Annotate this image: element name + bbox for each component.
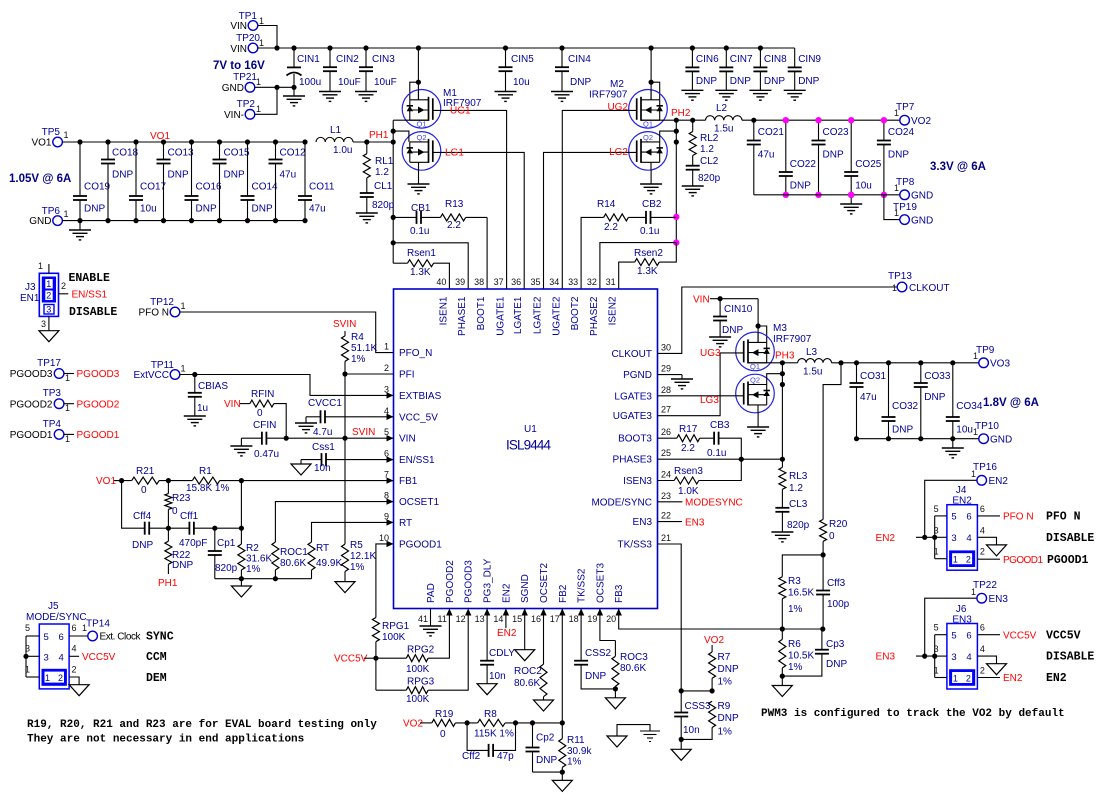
svg-text:PGOOD3: PGOOD3: [464, 560, 475, 603]
svg-text:TP10: TP10: [975, 421, 999, 432]
svg-text:3: 3: [934, 644, 939, 654]
svg-text:6: 6: [966, 512, 971, 523]
resistor RFIN 0: [224, 389, 286, 438]
svg-text:BOOT3: BOOT3: [618, 434, 652, 445]
svg-text:EN3: EN3: [876, 652, 896, 663]
svg-text:CIN7: CIN7: [730, 54, 753, 65]
svg-text:TK/SS3: TK/SS3: [618, 540, 653, 551]
svg-text:2.2: 2.2: [604, 222, 618, 233]
svg-text:36: 36: [511, 277, 521, 287]
svg-text:6: 6: [59, 632, 64, 643]
net UG3 wire: [658, 353, 744, 416]
svg-text:DISABLE: DISABLE: [69, 306, 117, 319]
svg-text:0: 0: [141, 485, 147, 496]
wire CLKOUT pin30 to TP13: [658, 287, 898, 353]
wire PHASE3 pin25: [658, 458, 783, 460]
wire EN2 to J4: [916, 536, 935, 538]
wire R20 to R3: [782, 555, 823, 577]
svg-text:4: 4: [384, 406, 389, 416]
svg-text:R9: R9: [718, 701, 731, 712]
test point TP8 (GND): [894, 177, 933, 202]
wire L2 to VO2 rail: [742, 119, 900, 121]
svg-text:10u: 10u: [513, 77, 530, 88]
ground triangle below CSS3: [680, 739, 682, 749]
svg-text:0: 0: [829, 531, 835, 542]
svg-text:BOOT2: BOOT2: [570, 296, 581, 330]
resistor RPG1 100K: [372, 618, 409, 659]
svg-text:PWM3 is configured to track th: PWM3 is configured to track the VO2 by d…: [761, 708, 1065, 720]
svg-text:OCSET1: OCSET1: [399, 497, 439, 508]
svg-text:1: 1: [971, 469, 976, 479]
wire VIN pin5: [286, 437, 393, 439]
svg-text:10u: 10u: [855, 181, 872, 192]
wire VO2 bottom rail: [754, 194, 900, 196]
svg-text:PGOOD1: PGOOD1: [399, 539, 442, 550]
svg-text:2: 2: [966, 555, 971, 565]
svg-text:Cff2: Cff2: [462, 751, 481, 762]
resistor Rsen3 1.0K: [658, 459, 742, 497]
svg-text:Cp2: Cp2: [536, 733, 555, 744]
svg-text:100p: 100p: [827, 599, 850, 610]
svg-text:CB3: CB3: [710, 420, 730, 431]
ground below VO2 bank: [850, 195, 852, 204]
svg-text:Cff3: Cff3: [827, 578, 846, 589]
svg-text:RPG3: RPG3: [407, 677, 435, 688]
resistor R6 10.5K 1%: [779, 629, 815, 679]
wire VO3 to R20 branch: [823, 363, 841, 520]
ground below VO1 bank: [79, 221, 81, 230]
wire TP2 up to GND node: [255, 87, 277, 114]
svg-text:UG1: UG1: [450, 106, 471, 117]
svg-text:M2: M2: [610, 79, 624, 90]
svg-text:DNP: DNP: [585, 671, 606, 682]
svg-text:1.8V @ 6A: 1.8V @ 6A: [983, 397, 1039, 409]
resistor R4 51.1K 1%: [342, 331, 378, 374]
svg-text:1.3K: 1.3K: [637, 266, 658, 277]
svg-text:VIN: VIN: [693, 295, 710, 306]
wire TP20 to VIN rail: [258, 47, 277, 49]
wire VO3 bottom rail: [857, 438, 979, 440]
wire PH1 vertical node: [392, 120, 394, 263]
svg-text:6: 6: [384, 449, 389, 459]
svg-text:VO2: VO2: [704, 635, 724, 646]
svg-text:1.2: 1.2: [700, 144, 714, 155]
svg-text:DNP: DNP: [536, 755, 557, 766]
svg-text:51.1K: 51.1K: [351, 343, 377, 354]
svg-text:2: 2: [966, 674, 971, 684]
svg-text:VCC5V: VCC5V: [1003, 630, 1037, 641]
svg-text:VO1: VO1: [96, 476, 116, 487]
svg-text:PFO N: PFO N: [138, 308, 169, 319]
svg-text:31.6K: 31.6K: [246, 554, 272, 565]
svg-text:33: 33: [568, 277, 578, 287]
svg-text:CO17: CO17: [140, 182, 167, 193]
resistor R22 DNP: [165, 528, 194, 574]
svg-text:CO18: CO18: [112, 148, 139, 159]
svg-text:LGATE3: LGATE3: [614, 391, 652, 402]
svg-text:DISABLE: DISABLE: [1046, 651, 1094, 664]
svg-text:FB1: FB1: [399, 476, 418, 487]
svg-text:47u: 47u: [758, 150, 775, 161]
svg-text:VCC5V: VCC5V: [82, 652, 116, 663]
svg-text:EN2: EN2: [1003, 673, 1023, 684]
svg-text:Cff4: Cff4: [133, 511, 152, 522]
svg-text:PHASE1: PHASE1: [457, 296, 468, 336]
svg-text:CO13: CO13: [168, 148, 195, 159]
svg-text:100K: 100K: [406, 664, 430, 675]
svg-text:5: 5: [934, 623, 939, 633]
svg-text:12: 12: [456, 614, 466, 624]
svg-text:10.5K: 10.5K: [788, 651, 814, 662]
svg-text:0.1u: 0.1u: [640, 226, 659, 237]
svg-text:2.2: 2.2: [447, 220, 461, 231]
svg-text:TK/SS2: TK/SS2: [577, 568, 588, 603]
svg-text:EN2: EN2: [989, 476, 1009, 487]
capacitor Cff3 100p: [816, 555, 850, 629]
svg-text:Q2: Q2: [417, 133, 427, 142]
capacitor CO34 10u: [946, 360, 983, 441]
wire J6 pin6 VCC5V: [977, 634, 1000, 636]
svg-text:ISEN3: ISEN3: [623, 476, 652, 487]
svg-text:PGOOD2: PGOOD2: [77, 399, 120, 410]
test point TP20 (VIN): [230, 33, 264, 55]
capacitor CIN1 100u (polarized): [283, 45, 321, 106]
svg-text:Css1: Css1: [312, 442, 335, 453]
svg-text:2: 2: [980, 666, 985, 676]
svg-text:PFO_N: PFO_N: [399, 348, 432, 359]
capacitor CIN2 10uF: [319, 45, 361, 101]
capacitor CO22 DNP: [779, 117, 817, 198]
capacitor CL1 820p: [356, 181, 395, 223]
pin 23 MODE/SYNC: [591, 491, 671, 509]
net LG3 wire (pin28 LGATE3): [658, 395, 744, 397]
svg-text:UGATE3: UGATE3: [613, 411, 653, 422]
svg-text:R3: R3: [788, 576, 801, 587]
svg-text:47u: 47u: [309, 204, 326, 215]
pin 2 PFI: [384, 363, 415, 381]
resistor R20 0: [820, 519, 848, 558]
svg-text:RPG1: RPG1: [382, 621, 410, 632]
svg-text:820p: 820p: [372, 200, 395, 211]
svg-text:TP20: TP20: [236, 33, 260, 44]
svg-text:L3: L3: [806, 347, 818, 358]
wire J6 pin2 EN2: [977, 677, 1000, 679]
resistor ROC1 80.6K: [272, 502, 394, 579]
svg-text:BOOT1: BOOT1: [476, 296, 487, 330]
svg-text:1: 1: [934, 666, 939, 676]
svg-text:1%: 1%: [350, 562, 365, 573]
svg-text:1: 1: [65, 434, 70, 444]
test point TP12 (PFO N): [138, 297, 185, 319]
svg-text:EXTBIAS: EXTBIAS: [399, 391, 442, 402]
svg-text:CIN4: CIN4: [568, 54, 591, 65]
svg-text:CO15: CO15: [224, 148, 251, 159]
svg-text:PGOOD1: PGOOD1: [1003, 555, 1043, 566]
svg-text:RL1: RL1: [375, 156, 394, 167]
svg-text:They are not necessary in end: They are not necessary in end applicatio…: [27, 734, 304, 746]
svg-text:13: 13: [475, 614, 485, 624]
svg-text:3: 3: [46, 304, 51, 314]
wire VIN to M1 drain: [417, 48, 419, 100]
svg-text:38: 38: [474, 277, 484, 287]
test point TP10 (GND): [973, 421, 1012, 446]
svg-text:R2: R2: [246, 543, 259, 554]
capacitor Cp2 DNP: [526, 723, 558, 772]
svg-text:10uF: 10uF: [374, 77, 397, 88]
capacitor CO13 DNP: [157, 139, 195, 223]
wire M1 Q2 drain entry: [393, 131, 409, 142]
connector J4 EN2: [932, 485, 985, 570]
capacitor CO11 47u: [298, 139, 335, 223]
pin 40 ISEN1: [436, 277, 449, 325]
svg-text:11: 11: [438, 614, 447, 624]
svg-text:1: 1: [973, 351, 978, 361]
svg-text:MODE/SYNC: MODE/SYNC: [26, 612, 87, 623]
svg-text:J5: J5: [48, 601, 59, 612]
capacitor CL2 820p: [682, 156, 721, 196]
resistor R17 2.2: [658, 424, 715, 454]
svg-text:PH2: PH2: [671, 108, 691, 119]
resistor R8 115K 1%: [465, 709, 565, 740]
svg-text:J4: J4: [956, 485, 967, 496]
pin 3 EXTBIAS: [384, 384, 442, 402]
svg-text:R13: R13: [445, 199, 464, 210]
capacitor CO12 47u: [269, 139, 307, 223]
svg-text:1: 1: [384, 342, 389, 352]
pin 28 LGATE3: [614, 385, 671, 403]
svg-text:TP16: TP16: [973, 462, 997, 473]
wire TK/SS3 down to CSS3: [658, 544, 682, 691]
svg-text:CO14: CO14: [252, 182, 279, 193]
svg-text:VO1: VO1: [150, 131, 170, 142]
inductor L3 1.5u: [798, 347, 832, 378]
svg-text:1: 1: [256, 104, 261, 114]
test point TP22 (EN3): [971, 580, 1008, 605]
capacitor CL3 820p: [771, 499, 809, 542]
capacitor CIN6 DNP: [681, 45, 719, 100]
wire R21 to R1: [159, 480, 192, 482]
svg-text:29: 29: [661, 364, 671, 374]
svg-text:CO24: CO24: [888, 127, 915, 138]
pin 30 CLKOUT: [611, 342, 671, 360]
ground triangle below R2: [240, 579, 242, 586]
svg-text:1: 1: [971, 587, 976, 597]
svg-text:22: 22: [661, 511, 671, 521]
svg-text:10n: 10n: [683, 725, 700, 736]
wire M2 Q2 drain entry: [660, 131, 677, 142]
svg-text:ExtVCC: ExtVCC: [133, 370, 169, 381]
wire TP21 to CIN1 bottom: [255, 86, 294, 88]
resistor RT 49.9K: [308, 522, 394, 578]
svg-text:1: 1: [894, 108, 899, 118]
svg-text:DNP: DNP: [722, 325, 743, 336]
svg-text:EN2: EN2: [952, 496, 972, 507]
wire VCC5V node: [364, 657, 376, 659]
svg-text:3: 3: [951, 533, 956, 544]
svg-text:21: 21: [661, 533, 671, 543]
svg-text:0: 0: [172, 506, 178, 517]
svg-text:ROC3: ROC3: [620, 652, 648, 663]
svg-text:CO12: CO12: [280, 148, 307, 159]
svg-text:5: 5: [44, 632, 49, 643]
svg-text:39: 39: [455, 277, 465, 287]
svg-text:DNP: DNP: [252, 204, 273, 215]
svg-text:19: 19: [587, 614, 597, 624]
net label EN2 (pin14): [505, 609, 507, 629]
svg-text:CB2: CB2: [642, 199, 662, 210]
svg-text:CO31: CO31: [860, 371, 887, 382]
svg-text:VIN-: VIN-: [224, 110, 244, 121]
svg-text:LG1: LG1: [445, 148, 464, 159]
svg-text:PFO N: PFO N: [1003, 512, 1034, 523]
svg-text:0.47u: 0.47u: [254, 449, 279, 460]
wire FB3 pin20: [619, 609, 823, 630]
pin 12 PGOOD3: [456, 560, 475, 624]
capacitor CO18 DNP: [101, 139, 139, 223]
svg-text:TP2: TP2: [237, 99, 256, 110]
wire J4 pin4 to ground: [977, 537, 996, 545]
svg-text:PHASE3: PHASE3: [613, 455, 653, 466]
svg-text:J6: J6: [956, 604, 967, 615]
svg-text:LG3: LG3: [700, 395, 719, 406]
svg-text:CIN6: CIN6: [696, 54, 719, 65]
pin 38 BOOT1: [474, 277, 487, 330]
svg-text:CIN8: CIN8: [764, 54, 787, 65]
resistor R11 30.9k 1%: [559, 723, 593, 772]
svg-text:25: 25: [661, 448, 671, 458]
capacitor CO15 DNP: [213, 139, 251, 223]
svg-text:CIN3: CIN3: [372, 54, 395, 65]
pin 34 UGATE2: [549, 277, 562, 336]
svg-text:UGATE1: UGATE1: [496, 296, 507, 336]
svg-text:VO1: VO1: [31, 138, 51, 149]
svg-text:4.7u: 4.7u: [313, 427, 332, 438]
svg-text:DNP: DNP: [892, 425, 913, 436]
svg-text:CO21: CO21: [758, 127, 785, 138]
svg-text:M3: M3: [773, 323, 787, 334]
pin 31 ISEN2: [606, 277, 619, 325]
pin 7 FB1: [384, 470, 418, 488]
pin 14 EN2: [493, 583, 512, 624]
svg-text:CL3: CL3: [789, 499, 808, 510]
inductor L2 1.5u: [706, 103, 743, 135]
svg-text:5: 5: [934, 504, 939, 514]
pin 29 PGND: [623, 364, 671, 382]
svg-text:ISEN2: ISEN2: [608, 296, 619, 325]
capacitor CO24 DNP: [877, 117, 915, 198]
svg-text:DNP: DNP: [112, 170, 133, 181]
svg-text:80.6K: 80.6K: [514, 678, 540, 689]
svg-text:1%: 1%: [788, 604, 803, 615]
svg-text:FB3: FB3: [614, 584, 625, 603]
net label MODESYNC: [658, 501, 683, 503]
svg-text:DNP: DNP: [764, 76, 785, 87]
capacitor CIN8 DNP: [749, 45, 787, 100]
svg-text:VCC_5V: VCC_5V: [399, 412, 438, 423]
capacitor CIN9 DNP: [784, 48, 822, 100]
wire CSS3 to R7/R9 node: [681, 690, 712, 692]
pin 22 EN3: [633, 511, 671, 529]
svg-text:16: 16: [531, 614, 541, 624]
svg-text:6: 6: [966, 631, 971, 642]
svg-text:GND: GND: [911, 216, 933, 227]
svg-text:4: 4: [72, 644, 77, 654]
svg-text:1: 1: [181, 364, 186, 374]
resistor RPG3 100K: [376, 612, 468, 705]
svg-text:RL2: RL2: [700, 133, 719, 144]
svg-text:2.2: 2.2: [681, 443, 695, 454]
svg-text:100u: 100u: [299, 77, 321, 88]
pin 15 SGND: [512, 574, 531, 624]
wire PGOOD1 pin10 to RPG1: [376, 544, 394, 618]
svg-text:49.9K: 49.9K: [316, 558, 342, 569]
wire FB1 node down to R2: [240, 481, 242, 529]
svg-text:PFO N: PFO N: [1046, 511, 1081, 524]
svg-text:820p: 820p: [215, 563, 238, 574]
svg-text:EN/SS1: EN/SS1: [399, 455, 435, 466]
wire PHASE1 to PH1: [393, 243, 468, 289]
pin 13 PG3_DLY: [475, 558, 494, 624]
svg-text:34: 34: [549, 277, 559, 287]
svg-text:115K 1%: 115K 1%: [474, 729, 514, 740]
connector J3 EN1: [20, 261, 68, 342]
resistor ROC3 80.6K: [600, 609, 648, 709]
resistor RL1 1.2: [363, 142, 393, 193]
capacitor CO33 DNP: [914, 360, 951, 441]
svg-text:Ext. Clock: Ext. Clock: [100, 632, 142, 643]
svg-text:UGATE2: UGATE2: [551, 296, 562, 336]
svg-text:15.8K 1%: 15.8K 1%: [186, 483, 229, 494]
resistor R21 0: [132, 466, 159, 496]
svg-text:VO2: VO2: [403, 719, 423, 730]
svg-text:DNP: DNP: [826, 659, 847, 670]
svg-text:DNP: DNP: [696, 76, 717, 87]
svg-text:5: 5: [384, 427, 389, 437]
svg-text:3: 3: [951, 652, 956, 663]
test point TP5 (VO1): [31, 127, 68, 149]
test point TP17 (PGOOD3): [10, 358, 120, 383]
svg-text:EN2: EN2: [1046, 672, 1067, 685]
wire TP12 to pin1 PFO_N: [180, 312, 394, 353]
capacitor CSS3 10n: [674, 688, 711, 742]
test point TP16 (EN2): [971, 462, 1008, 487]
svg-text:UG2: UG2: [607, 102, 628, 113]
pin 16 OCSET2: [531, 563, 550, 624]
svg-text:3.3V @ 6A: 3.3V @ 6A: [930, 161, 986, 173]
svg-text:4: 4: [980, 525, 985, 535]
svg-text:PH3: PH3: [775, 351, 795, 362]
svg-text:CIN1: CIN1: [297, 54, 320, 65]
svg-text:30.9k: 30.9k: [567, 746, 592, 757]
svg-text:DNP: DNP: [172, 560, 193, 571]
svg-text:1: 1: [45, 673, 50, 683]
wire PH1 rail: [353, 141, 393, 143]
svg-text:Rsen2: Rsen2: [634, 248, 663, 259]
svg-text:1%: 1%: [567, 757, 582, 768]
pin 21 TK/SS3: [618, 533, 671, 551]
svg-text:35: 35: [530, 277, 540, 287]
wire VO1 bottom rail: [62, 220, 305, 222]
capacitor CO32 DNP: [882, 360, 919, 441]
resistor R9 DNP 1%: [681, 701, 739, 739]
svg-text:R19, R20, R21 and R23 are for: R19, R20, R21 and R23 are for EVAL board…: [27, 719, 377, 731]
wire Cp2/R11 ground rail: [533, 771, 563, 773]
svg-text:5: 5: [951, 512, 956, 523]
wire TP1 to VIN rail: [258, 26, 277, 49]
svg-text:5: 5: [951, 631, 956, 642]
resistor ROC2 80.6K: [514, 609, 554, 712]
svg-text:40: 40: [436, 277, 446, 287]
